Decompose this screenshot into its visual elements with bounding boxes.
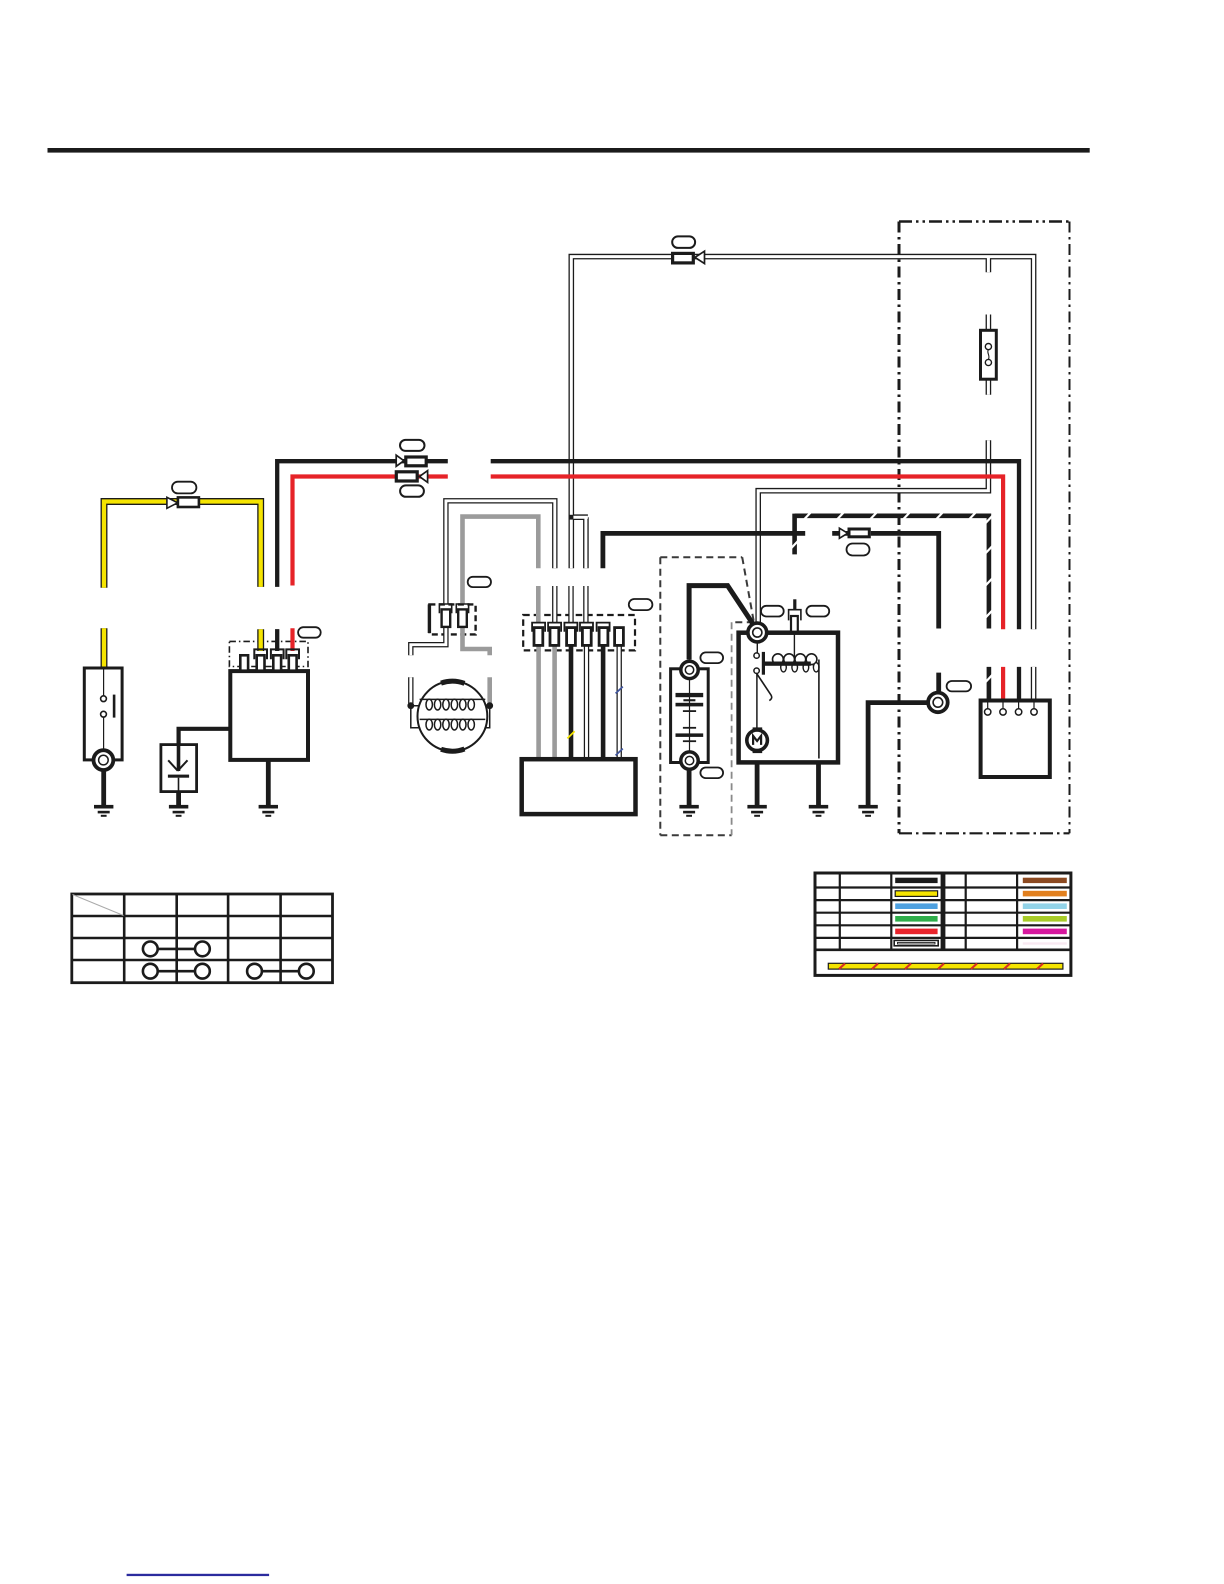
wire G (gray) CDI leads — [539, 645, 555, 761]
switch continuity table — [72, 894, 333, 983]
swatch sky — [1023, 903, 1067, 909]
rectifier box — [981, 701, 1050, 778]
wire G (gray) magneto lighting lead — [463, 517, 539, 604]
main switch internals — [101, 668, 107, 751]
main switch box — [84, 668, 122, 760]
magneto coil connections — [411, 706, 490, 728]
label oval (battery bottom) — [700, 768, 723, 779]
diode symbol — [168, 745, 187, 792]
frame box (dash-dot-dot enclosure) — [899, 222, 1070, 834]
wire W (white) magneto loop — [411, 501, 555, 704]
continuity circles row 4 — [143, 964, 314, 979]
magneto junction dots — [407, 702, 414, 709]
battery frame — [671, 669, 709, 763]
wire L/W blue stripes — [616, 687, 623, 694]
ground (main switch) — [94, 805, 113, 817]
swatch black — [895, 878, 937, 883]
swatch yellow — [895, 891, 937, 897]
wire G (gray) lower magneto lead — [463, 627, 490, 703]
relay coil pin — [789, 610, 801, 621]
wire B (black) handlebar switch run — [603, 533, 939, 694]
connector housing (6-pin, dashed) — [523, 615, 635, 650]
battery plates — [676, 693, 704, 742]
wire color legend table — [815, 873, 1071, 975]
wire B/W (black-white) relay coil to rectifier — [795, 514, 989, 702]
coupler (yellow wire) — [167, 497, 178, 508]
wire W (white) top network — [569, 257, 1034, 630]
connector housing (2-pin, dashed) — [429, 604, 475, 634]
striped wire sample (yellow/red) — [828, 963, 1063, 969]
label oval (red coupler) — [400, 485, 424, 496]
junction (white wire branch) — [569, 515, 574, 520]
wire Y (yellow) main switch loop — [104, 502, 261, 669]
battery terminal ring (+) — [681, 661, 698, 678]
wire W (white) to rectifier — [1031, 667, 1037, 702]
wire B (black) CDI leads — [571, 645, 603, 761]
relay contact bar — [762, 652, 765, 675]
label oval (unit connector) — [298, 627, 321, 638]
wire B (black) battery positive — [689, 586, 755, 660]
ground (diode) — [169, 805, 188, 817]
magneto upper coil — [420, 698, 486, 700]
connector 2-pin pins — [439, 604, 468, 613]
label oval (6-pin connector) — [629, 599, 653, 610]
swatch magenta — [1023, 929, 1067, 935]
swatch orange — [1023, 891, 1067, 897]
label oval (2-pin connector) — [468, 577, 491, 587]
unit pin 1 — [240, 655, 248, 670]
main switch contact bar — [113, 695, 116, 718]
swatch green — [895, 916, 937, 922]
header rule — [48, 148, 1090, 153]
ground (unit) — [259, 805, 278, 817]
continuity circles row 3 — [143, 942, 210, 957]
starter motor — [747, 730, 768, 751]
wire to starter motor — [756, 673, 758, 728]
label oval (relay right) — [806, 606, 829, 617]
label oval (relay left) — [761, 606, 784, 617]
wire B/Y yellow stripe — [567, 731, 574, 738]
table header diagonal — [73, 895, 124, 916]
rectifier terminals — [985, 709, 1038, 715]
label oval (white coupler) — [672, 236, 695, 248]
hyperlink underline — [127, 1574, 270, 1576]
connector 6-pin pins — [532, 623, 610, 632]
swatch white — [894, 940, 938, 945]
relay battery ring terminal — [748, 623, 767, 642]
unit pin 3 — [271, 649, 284, 659]
coupler (white wire, top) — [673, 253, 694, 263]
battery terminal ring (-) — [681, 752, 698, 769]
starter dashed edge — [731, 622, 733, 835]
magneto lower coil — [420, 718, 486, 720]
swatch blue — [895, 903, 937, 909]
main switch ring terminal — [94, 750, 114, 770]
wire W (white) CDI leads — [587, 645, 620, 761]
diode box — [161, 745, 197, 792]
wire W (white) connector pins 2-4 stubs — [555, 586, 586, 623]
legend heavy divider — [941, 873, 946, 950]
connector housing (4-pin unit, dash-dot) — [229, 641, 308, 666]
relay contacts — [756, 642, 758, 653]
ground (frame) — [858, 805, 877, 817]
wire B (black) main feed — [277, 461, 1019, 701]
wire B (black) diode feed — [179, 729, 232, 749]
CDI unit box — [522, 759, 636, 814]
wire W (white) fuse to starter relay — [758, 315, 988, 626]
swatch red — [895, 929, 937, 935]
wire B (black) ring to ground — [868, 703, 929, 806]
relay coil — [793, 632, 795, 658]
coupler (handlebar switch) — [839, 528, 847, 538]
label oval (ring terminal) — [947, 681, 972, 691]
label oval (handlebar coupler) — [847, 544, 870, 556]
label oval (black coupler) — [400, 440, 425, 451]
starter relay box — [739, 633, 838, 763]
ground (relay coil) — [809, 805, 828, 817]
unit pin 4 — [286, 649, 299, 659]
swatch brown — [1023, 878, 1067, 883]
battery dashed enclosure — [660, 557, 754, 835]
wire R (red) main — [293, 477, 1004, 702]
ground (battery) — [679, 805, 698, 817]
unit box (CDI/regulator unit) — [230, 671, 308, 760]
label oval (battery top) — [700, 652, 723, 663]
relay coil return wire — [818, 660, 820, 759]
coupler (red wire) — [396, 472, 417, 481]
ground stems — [104, 753, 819, 806]
wire B (black) relay coil pin stub — [793, 599, 796, 610]
relay armature bar — [764, 662, 811, 666]
starter cable ring terminal — [928, 693, 948, 713]
wire G (gray) pin1 stub — [536, 586, 541, 623]
coupler (black wire) — [396, 455, 404, 466]
relay moving contact arm — [757, 673, 772, 700]
ground (starter motor) — [747, 805, 766, 817]
label oval (yellow coupler) — [172, 482, 196, 494]
swatch chartreuse — [1023, 916, 1067, 922]
fuse — [981, 330, 997, 379]
magneto flywheel — [418, 681, 488, 751]
swatch pale pink — [1023, 942, 1067, 944]
unit pin 2 — [254, 649, 267, 659]
